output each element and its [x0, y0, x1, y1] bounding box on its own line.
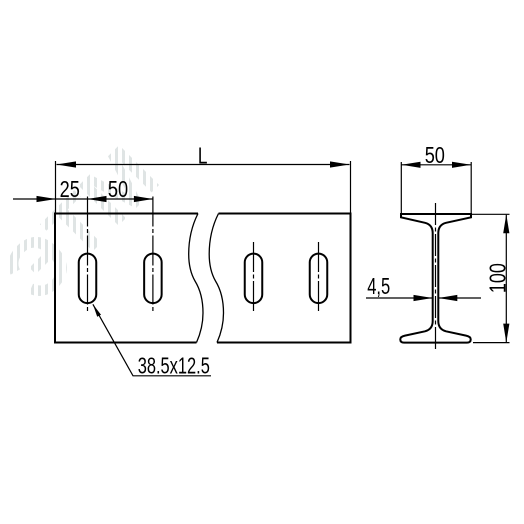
extension line 100 bottom: [473, 342, 510, 344]
leader line slot size: [93, 304, 211, 376]
plate outline left piece: [55, 214, 198, 343]
slot 3: [245, 254, 263, 304]
break line right: [209, 214, 223, 343]
svg-text:4,5: 4,5: [367, 273, 390, 299]
I-beam section outline: [400, 214, 471, 343]
arrow 4,5 left: [414, 295, 433, 301]
center line slot 2: [152, 197, 154, 313]
center line slot 1: [87, 197, 89, 313]
arrow 100 top: [503, 214, 509, 233]
svg-text:50: 50: [425, 142, 445, 168]
leader arrow: [93, 304, 101, 317]
svg-text:L: L: [198, 142, 208, 168]
center line slot 4: [318, 242, 320, 314]
arrow 50 right: [134, 196, 153, 202]
I-beam center line: [435, 203, 437, 350]
svg-text:25: 25: [60, 176, 80, 202]
svg-text:50: 50: [108, 176, 128, 202]
arrow L left: [57, 161, 77, 167]
break line left: [189, 214, 203, 343]
arrow 4,5 right: [438, 295, 457, 301]
center line slot 3: [253, 242, 255, 314]
dimension line 25-50: [13, 198, 153, 200]
slot 4: [310, 254, 328, 304]
extension line 100 top: [472, 213, 510, 215]
extension line 50 left: [400, 162, 402, 213]
dimension line 50 top: [402, 164, 472, 166]
extension line 50 right: [470, 162, 472, 213]
svg-text:38.5x12.5: 38.5x12.5: [138, 352, 210, 378]
dimension line 100: [505, 215, 507, 342]
slot 2: [144, 254, 162, 304]
slot 1: [79, 254, 97, 304]
arrow 100 bottom: [503, 324, 509, 343]
extension line L right: [350, 161, 352, 213]
arrow L right: [330, 161, 350, 167]
plate outline right piece: [217, 214, 351, 343]
arrow 50 section left: [402, 162, 421, 168]
arrow 25 left outside: [37, 196, 57, 202]
dimension line L: [57, 164, 350, 166]
dimension line 4,5 left part: [366, 297, 432, 299]
extension line L left: [55, 161, 57, 213]
arrow 50 left: [88, 196, 107, 202]
dimension line 4,5 right part: [439, 297, 482, 299]
arrow 50 section right: [452, 162, 471, 168]
svg-text:100: 100: [485, 263, 511, 293]
